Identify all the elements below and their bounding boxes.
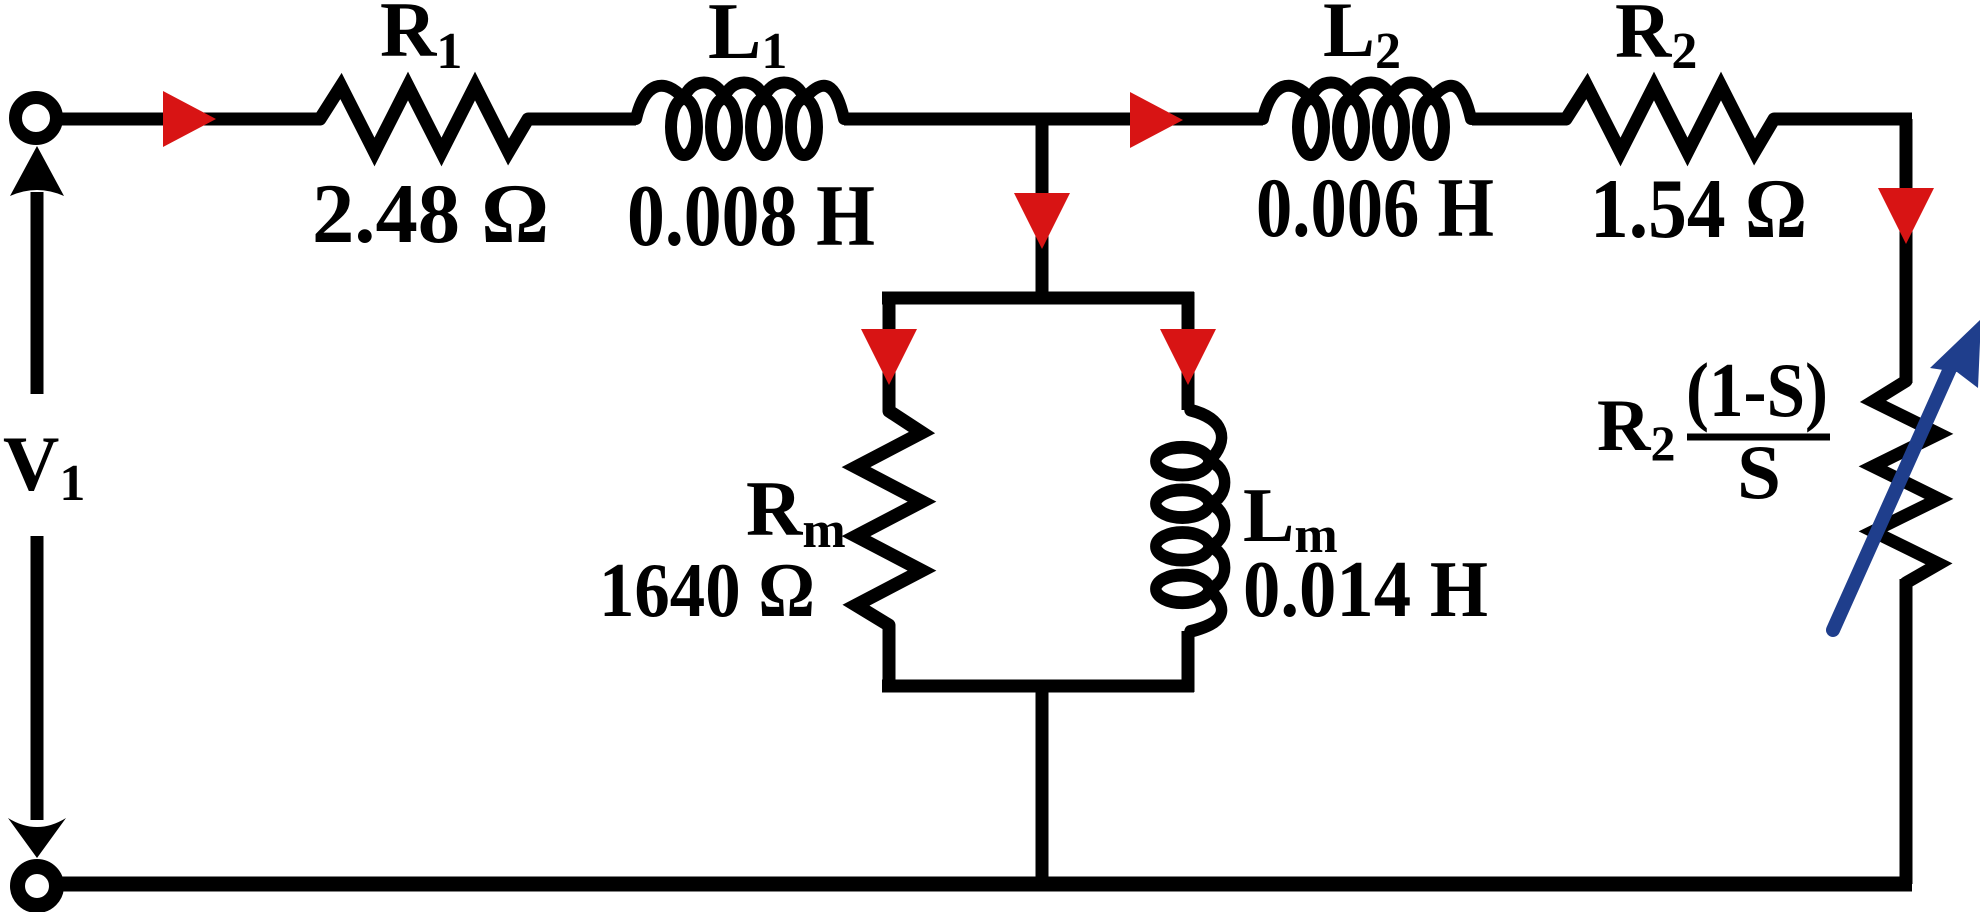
wire right rail [1900,119,1913,884]
source V1 arrow down [31,536,44,820]
current arrow I1 [163,91,216,147]
resistor R2 [1566,86,1774,152]
current arrow stem [1014,193,1070,249]
resistor R2(1-S)/S variable [1873,381,1939,583]
current arrow right rail [1878,188,1934,244]
resistor Rm [856,411,922,625]
wire right branch upper [1182,292,1195,410]
wire bottom [60,877,1912,892]
blue variable arrow [1833,319,1980,630]
current arrow Lm branch [1160,329,1216,385]
svg-text:V1: V1 [3,420,85,512]
resistor R1 [320,86,528,152]
wire top horizontal [60,113,1912,126]
inductor Lm [1156,410,1225,632]
source V1 arrow up [31,192,44,394]
wire left branch lower [883,625,896,692]
wire junction stem top [1036,119,1049,298]
svg-text:0.008 H: 0.008 H [627,168,875,265]
wire right branch lower [1182,631,1195,692]
svg-text:S: S [1737,429,1781,515]
svg-text:1640 Ω: 1640 Ω [599,547,815,633]
wire left branch upper [883,292,896,411]
wire parallel top bar [882,292,1194,305]
inductor L2 [1263,83,1471,156]
current arrow I2 [1130,92,1183,148]
svg-text:L1: L1 [708,0,787,80]
fraction bar [1687,434,1830,441]
current arrow Rm branch [861,329,917,385]
svg-text:R2: R2 [1597,385,1675,471]
wire center stem bottom [1036,686,1049,884]
terminal bottom-left [18,867,57,906]
inductor L1 [636,83,844,156]
svg-text:2.48 Ω: 2.48 Ω [312,167,549,261]
svg-text:L2: L2 [1323,0,1401,80]
terminal top-left [16,98,57,139]
svg-text:Rm: Rm [746,465,846,559]
svg-text:(1-S): (1-S) [1686,347,1828,433]
svg-text:0.014 H: 0.014 H [1243,546,1488,634]
svg-text:R2: R2 [1615,0,1697,80]
svg-text:0.006 H: 0.006 H [1256,161,1494,255]
svg-text:R1: R1 [380,0,462,80]
svg-text:1.54 Ω: 1.54 Ω [1590,162,1807,256]
wire parallel bottom bar [882,680,1194,693]
